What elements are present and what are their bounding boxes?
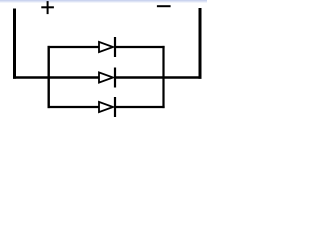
diode D3 (bottom branch) [99,97,115,117]
wire (middle branch, anode side) [13,76,100,78]
wire (bottom branch, anode side) [48,106,100,108]
wire (left positive rail) [13,9,16,79]
node + (positive terminal label) [41,1,54,14]
wire (middle branch, cathode side) [115,76,202,78]
diode D1 (top branch) [99,37,115,57]
diode D2 (middle branch) [99,68,115,88]
wire (left vertical bus) [48,46,50,108]
wire (top branch, cathode side) [115,46,165,48]
wire (right negative rail) [199,8,202,79]
wire (right vertical bus) [162,46,164,108]
wire (bottom branch, cathode side) [115,106,165,108]
node - (negative terminal label) [157,5,171,7]
wire (top branch, anode side) [48,46,100,48]
